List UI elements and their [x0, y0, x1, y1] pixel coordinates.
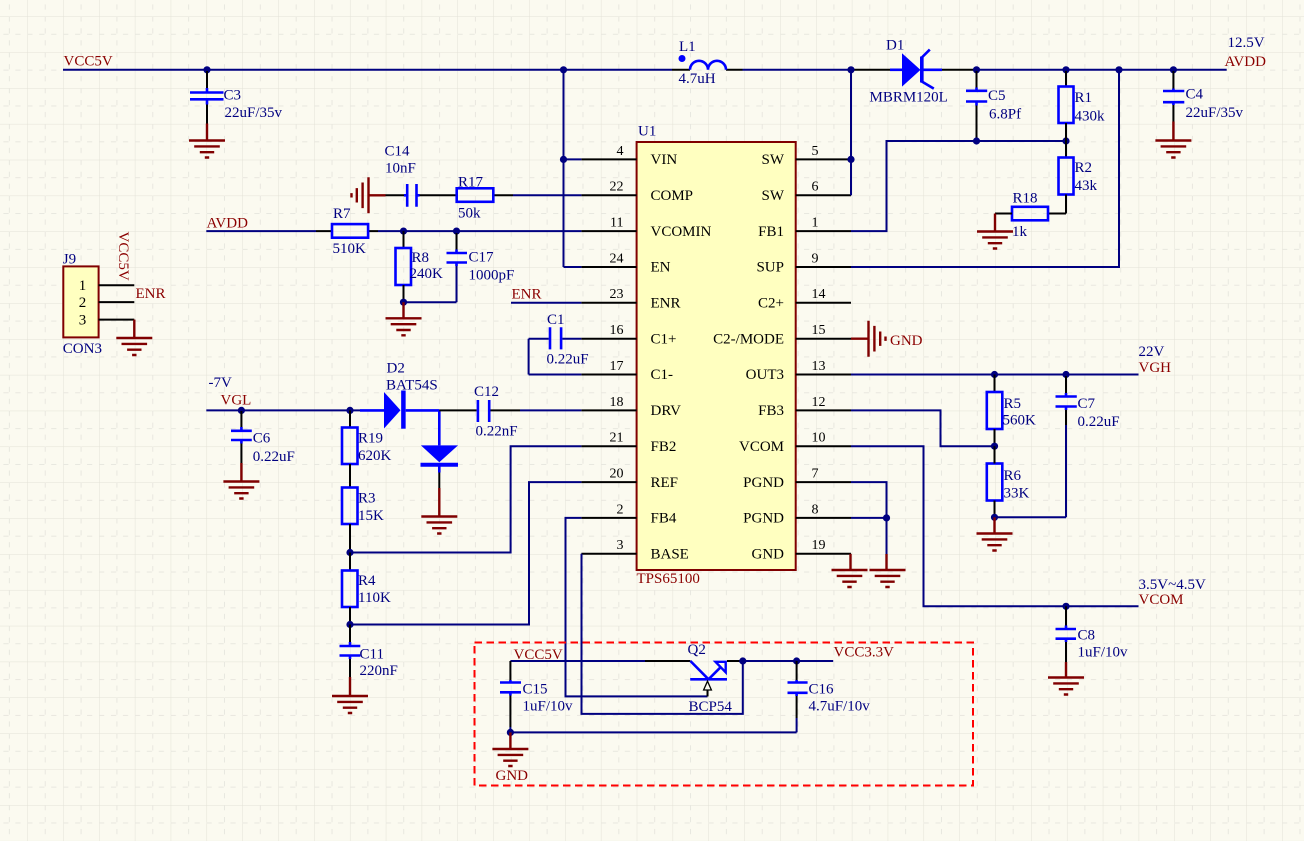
- svg-text:15K: 15K: [358, 508, 384, 524]
- svg-text:GND: GND: [890, 333, 923, 349]
- resistor R18: [995, 207, 1066, 221]
- pin 11 VCOMIN: [581, 216, 711, 240]
- svg-text:VIN: VIN: [651, 152, 678, 168]
- svg-text:0.22uF: 0.22uF: [547, 352, 589, 368]
- pin 2 FB4: [581, 502, 676, 526]
- svg-text:C2-/MODE: C2-/MODE: [713, 331, 784, 347]
- ground at C2-/MODE (pointing right): [851, 321, 886, 357]
- svg-text:C17: C17: [469, 250, 495, 266]
- wire REF net: [350, 482, 581, 624]
- svg-text:DRV: DRV: [651, 403, 682, 419]
- svg-text:R5: R5: [1004, 396, 1022, 412]
- svg-text:VCOM: VCOM: [739, 439, 784, 455]
- capacitor C15: [500, 680, 521, 732]
- capacitor C3: [190, 71, 224, 124]
- svg-text:CON3: CON3: [63, 341, 102, 357]
- svg-text:C2+: C2+: [758, 296, 784, 312]
- junction at C4 tap: [1170, 66, 1177, 73]
- svg-text:MBRM120L: MBRM120L: [870, 90, 948, 106]
- wire VCOM net: [851, 446, 1139, 606]
- svg-text:R19: R19: [358, 431, 383, 447]
- wire BASE net: [582, 554, 743, 714]
- svg-text:TPS65100: TPS65100: [637, 571, 700, 587]
- junction at R1 top: [1062, 66, 1069, 73]
- svg-text:21: 21: [610, 431, 624, 446]
- ground at PGND: [870, 554, 906, 587]
- svg-text:GND: GND: [752, 547, 785, 563]
- svg-text:2: 2: [617, 502, 624, 517]
- wire VCC5V rail black segments around L1 and D1: [672, 69, 977, 71]
- ground at GND pin 19: [832, 554, 868, 587]
- wire SUP branch: [851, 70, 1119, 267]
- capacitor C12: [439, 400, 581, 422]
- svg-text:FB4: FB4: [651, 511, 677, 527]
- svg-text:C1: C1: [547, 312, 565, 328]
- junction VCOM/C8: [1062, 603, 1069, 610]
- junction at SW node: [847, 66, 854, 73]
- svg-text:1000pF: 1000pF: [469, 268, 515, 284]
- svg-text:2: 2: [79, 295, 87, 311]
- pin 1 FB1: [758, 216, 851, 240]
- svg-text:BCP54: BCP54: [689, 699, 733, 715]
- svg-text:VCOMIN: VCOMIN: [651, 224, 712, 240]
- resistor R5: [987, 375, 1003, 447]
- svg-text:8: 8: [812, 502, 819, 517]
- svg-text:R8: R8: [412, 250, 430, 266]
- junction R3/R4: [346, 549, 353, 556]
- capacitor C11: [340, 625, 361, 678]
- pin 17 C1-: [581, 359, 673, 383]
- svg-text:R1: R1: [1075, 90, 1093, 106]
- resistor R8: [396, 231, 412, 302]
- svg-text:50k: 50k: [458, 206, 481, 222]
- ground at R8/C17: [386, 302, 422, 335]
- junction AVDD/R8: [400, 228, 407, 235]
- svg-text:15: 15: [812, 323, 826, 338]
- svg-text:VCC5V: VCC5V: [115, 232, 131, 281]
- wire SW pins to switch node: [850, 70, 852, 196]
- pin 3 BASE: [581, 538, 688, 562]
- junction FB1/C5: [973, 137, 980, 144]
- junction VGL/R19/D2: [346, 407, 353, 414]
- pin 21 FB2: [581, 431, 676, 455]
- inductor L1: [679, 55, 727, 70]
- ground at C8: [1048, 662, 1084, 695]
- pin 7 PGND: [743, 467, 851, 491]
- svg-text:1: 1: [79, 278, 87, 294]
- pin 16 C1+: [581, 323, 676, 347]
- svg-text:1uF/10v: 1uF/10v: [1078, 645, 1129, 661]
- pin 6 SW: [762, 180, 852, 204]
- resistor R17: [457, 188, 494, 202]
- svg-text:110K: 110K: [358, 590, 391, 606]
- svg-text:18: 18: [610, 395, 624, 410]
- capacitor C17: [447, 233, 468, 302]
- svg-text:4.7uF/10v: 4.7uF/10v: [809, 699, 871, 715]
- svg-text:6: 6: [812, 180, 819, 195]
- capacitor C4: [1163, 71, 1184, 122]
- pin 14 C2+: [758, 287, 851, 311]
- pin 24 EN: [581, 251, 670, 275]
- resistor R7: [332, 224, 368, 238]
- svg-text:R6: R6: [1004, 468, 1022, 484]
- wire VGL net: [206, 409, 360, 411]
- wire VCC5V top rail: [63, 69, 1227, 71]
- capacitor C14: [386, 184, 457, 207]
- svg-text:C8: C8: [1078, 628, 1096, 644]
- junction R5/R6/FB3: [991, 443, 998, 450]
- wire FB4 net: [566, 518, 708, 697]
- pin 19 GND: [752, 538, 852, 562]
- svg-text:ENR: ENR: [651, 296, 681, 312]
- svg-text:22: 22: [610, 180, 624, 195]
- junction VCC3.3V/C16: [793, 657, 800, 664]
- ground at R6: [977, 517, 1013, 550]
- svg-text:PGND: PGND: [743, 511, 784, 527]
- junction VGL/C6: [238, 407, 245, 414]
- pin 15 C2-/MODE: [713, 323, 851, 347]
- transistor Q2 BCP54: [690, 661, 743, 696]
- junction AVDD/C17: [453, 228, 460, 235]
- svg-text:FB2: FB2: [651, 439, 677, 455]
- wire FB2 net: [350, 446, 581, 552]
- J9 pin 1 wire: [99, 284, 135, 286]
- svg-text:SW: SW: [762, 152, 785, 168]
- ground at J9 pin 3: [116, 320, 152, 355]
- svg-text:R2: R2: [1075, 160, 1093, 176]
- svg-text:ENR: ENR: [136, 286, 166, 302]
- svg-text:COMP: COMP: [651, 188, 694, 204]
- svg-text:22V: 22V: [1139, 344, 1165, 360]
- junction at SUP branch: [1115, 66, 1122, 73]
- svg-text:BAT54S: BAT54S: [386, 378, 438, 394]
- svg-text:C6: C6: [253, 431, 271, 447]
- svg-text:C12: C12: [474, 384, 499, 400]
- svg-text:Q2: Q2: [688, 642, 706, 658]
- svg-text:19: 19: [812, 538, 826, 553]
- svg-text:240K: 240K: [410, 266, 444, 282]
- svg-text:43k: 43k: [1075, 178, 1098, 194]
- pin 12 FB3: [758, 395, 851, 419]
- capacitor C6: [231, 411, 252, 463]
- svg-text:13: 13: [812, 359, 826, 374]
- svg-text:10nF: 10nF: [385, 161, 416, 177]
- svg-text:3: 3: [617, 538, 624, 553]
- svg-text:1uF/10v: 1uF/10v: [523, 699, 574, 715]
- svg-text:10: 10: [812, 431, 826, 446]
- svg-text:23: 23: [610, 287, 624, 302]
- svg-text:AVDD: AVDD: [1225, 54, 1267, 70]
- svg-text:9: 9: [812, 251, 819, 266]
- pin 20 REF: [581, 467, 678, 491]
- ground at D2: [421, 488, 457, 534]
- svg-text:VGL: VGL: [221, 393, 252, 409]
- svg-text:0.22uF: 0.22uF: [1078, 414, 1120, 430]
- svg-text:R7: R7: [333, 206, 351, 222]
- wire VIN branch vertical: [564, 70, 582, 267]
- svg-text:D1: D1: [886, 38, 904, 54]
- diode D2 BAT54S: [360, 391, 458, 489]
- pin 23 ENR: [581, 287, 680, 311]
- ground at C4: [1155, 122, 1191, 158]
- svg-text:OUT3: OUT3: [746, 367, 784, 383]
- svg-text:0.22nF: 0.22nF: [476, 424, 518, 440]
- wire COMP net: [493, 194, 581, 196]
- svg-text:C1+: C1+: [651, 331, 677, 347]
- svg-text:620K: 620K: [358, 448, 392, 464]
- svg-text:4.7uH: 4.7uH: [679, 71, 716, 87]
- IC U1 TPS65100 body: [637, 142, 796, 570]
- junction R8 bottom: [400, 299, 407, 306]
- wire OUT3 / VGH net: [851, 374, 1139, 376]
- wire C15/C16 ground link: [510, 731, 796, 733]
- svg-text:C16: C16: [809, 682, 835, 698]
- ground at C15: [492, 732, 528, 766]
- svg-text:1: 1: [812, 216, 819, 231]
- pin 13 OUT3: [746, 359, 851, 383]
- capacitor C16: [788, 661, 808, 732]
- wire FB1 to divider: [851, 141, 1066, 231]
- wire PGND pins to ground: [851, 482, 887, 554]
- svg-text:4: 4: [617, 144, 624, 159]
- svg-text:22uF/35v: 22uF/35v: [1186, 105, 1244, 121]
- pin 5 SW: [762, 144, 852, 168]
- svg-text:VCC5V: VCC5V: [64, 54, 113, 70]
- svg-text:220nF: 220nF: [360, 663, 398, 679]
- capacitor C1: [529, 327, 582, 374]
- svg-text:C15: C15: [523, 682, 548, 698]
- capacitor C8: [1056, 606, 1077, 662]
- ground at C6: [223, 463, 259, 499]
- wire VCC5V to Q2 collector: [510, 661, 690, 680]
- resistor R2: [1059, 141, 1074, 214]
- J9 pin 3 wire: [99, 319, 135, 321]
- svg-text:C3: C3: [224, 88, 242, 104]
- svg-text:REF: REF: [651, 475, 679, 491]
- svg-text:SW: SW: [762, 188, 785, 204]
- junction at C3 tap: [203, 66, 210, 73]
- diode D1 MBRM120L: [890, 50, 942, 89]
- svg-text:0.22uF: 0.22uF: [253, 449, 295, 465]
- pin 18 DRV: [581, 395, 681, 419]
- junction at pin 5: [847, 156, 854, 163]
- ground at C11: [332, 677, 368, 713]
- wire AVDD net to VCOMIN: [206, 230, 581, 232]
- svg-text:560K: 560K: [1003, 413, 1037, 429]
- svg-text:R17: R17: [458, 175, 484, 191]
- resistor R6: [987, 446, 1003, 517]
- svg-text:C11: C11: [360, 647, 384, 663]
- svg-text:U1: U1: [638, 124, 656, 140]
- svg-text:11: 11: [610, 216, 623, 231]
- ground at R18: [977, 214, 1013, 249]
- svg-text:12.5V: 12.5V: [1228, 35, 1265, 51]
- svg-text:C14: C14: [385, 144, 411, 160]
- resistor R3: [342, 488, 358, 553]
- svg-text:14: 14: [812, 287, 826, 302]
- junction at pin 4 stub: [560, 156, 567, 163]
- ground at C3: [189, 124, 225, 158]
- svg-text:R18: R18: [1013, 191, 1038, 207]
- svg-text:1k: 1k: [1012, 224, 1028, 240]
- junction R6 bottom: [991, 514, 998, 521]
- wire ENR net: [511, 302, 581, 304]
- wire R6/C7 bottom link: [995, 516, 1067, 518]
- junction PGND pins: [883, 514, 890, 521]
- svg-text:-7V: -7V: [209, 375, 232, 391]
- junction FB1/R1/R2: [1062, 137, 1069, 144]
- capacitor C5: [966, 71, 987, 141]
- svg-text:GND: GND: [496, 768, 529, 784]
- svg-text:430k: 430k: [1075, 109, 1106, 125]
- svg-text:510K: 510K: [333, 241, 367, 257]
- svg-text:C1-: C1-: [651, 367, 674, 383]
- svg-text:24: 24: [610, 251, 624, 266]
- svg-text:D2: D2: [387, 361, 405, 377]
- svg-text:3.5V~4.5V: 3.5V~4.5V: [1139, 577, 1206, 593]
- wire FB3 net: [851, 410, 995, 446]
- svg-text:5: 5: [812, 144, 819, 159]
- svg-text:VGH: VGH: [1139, 360, 1172, 376]
- svg-text:EN: EN: [651, 260, 671, 276]
- svg-text:VCC3.3V: VCC3.3V: [834, 645, 895, 661]
- svg-text:R4: R4: [358, 573, 376, 589]
- wire Q2 emitter to VCC3.3V: [743, 660, 833, 662]
- pin 9 SUP: [756, 251, 851, 275]
- svg-text:AVDD: AVDD: [207, 216, 249, 232]
- pin 4 VIN: [581, 144, 677, 168]
- svg-text:3: 3: [79, 313, 87, 329]
- svg-text:VCOM: VCOM: [1139, 592, 1184, 608]
- connector J9 CON3: [63, 266, 98, 337]
- pin 10 VCOM: [739, 431, 851, 455]
- J9 pin 2 wire: [99, 301, 135, 303]
- svg-text:FB3: FB3: [758, 403, 784, 419]
- svg-text:L1: L1: [679, 39, 696, 55]
- pin 22 COMP: [581, 180, 693, 204]
- svg-text:C7: C7: [1078, 396, 1096, 412]
- svg-text:R3: R3: [358, 491, 376, 507]
- capacitor C7: [1056, 376, 1077, 517]
- svg-text:C5: C5: [988, 88, 1006, 104]
- resistor R1: [1059, 71, 1074, 141]
- svg-text:6.8Pf: 6.8Pf: [989, 106, 1021, 122]
- svg-text:12: 12: [812, 395, 826, 410]
- resistor R19: [342, 410, 358, 487]
- junction R4/C11: [346, 621, 353, 628]
- svg-text:20: 20: [610, 467, 624, 482]
- pin 8 PGND: [743, 502, 851, 526]
- svg-text:FB1: FB1: [758, 224, 784, 240]
- junction C15 ground node: [507, 729, 514, 736]
- junction at D1 cathode / C5: [973, 66, 980, 73]
- junction VGH/R5: [991, 371, 998, 378]
- svg-text:17: 17: [610, 359, 624, 374]
- svg-text:SUP: SUP: [756, 260, 784, 276]
- svg-text:ENR: ENR: [512, 287, 542, 303]
- svg-text:7: 7: [812, 467, 819, 482]
- svg-text:22uF/35v: 22uF/35v: [225, 105, 283, 121]
- ground at C14 (pointing left): [352, 177, 386, 213]
- regulator section dashed outline box: [475, 643, 974, 786]
- svg-text:16: 16: [610, 323, 624, 338]
- junction at VIN branch: [560, 66, 567, 73]
- junction emitter/FB4: [739, 657, 746, 664]
- svg-text:J9: J9: [63, 251, 76, 267]
- junction VGH/C7: [1062, 371, 1069, 378]
- svg-text:C4: C4: [1186, 87, 1204, 103]
- svg-text:PGND: PGND: [743, 475, 784, 491]
- svg-text:33K: 33K: [1004, 486, 1030, 502]
- wire R8/C17 to ground: [404, 301, 457, 303]
- resistor R4: [342, 553, 358, 625]
- svg-text:BASE: BASE: [651, 547, 689, 563]
